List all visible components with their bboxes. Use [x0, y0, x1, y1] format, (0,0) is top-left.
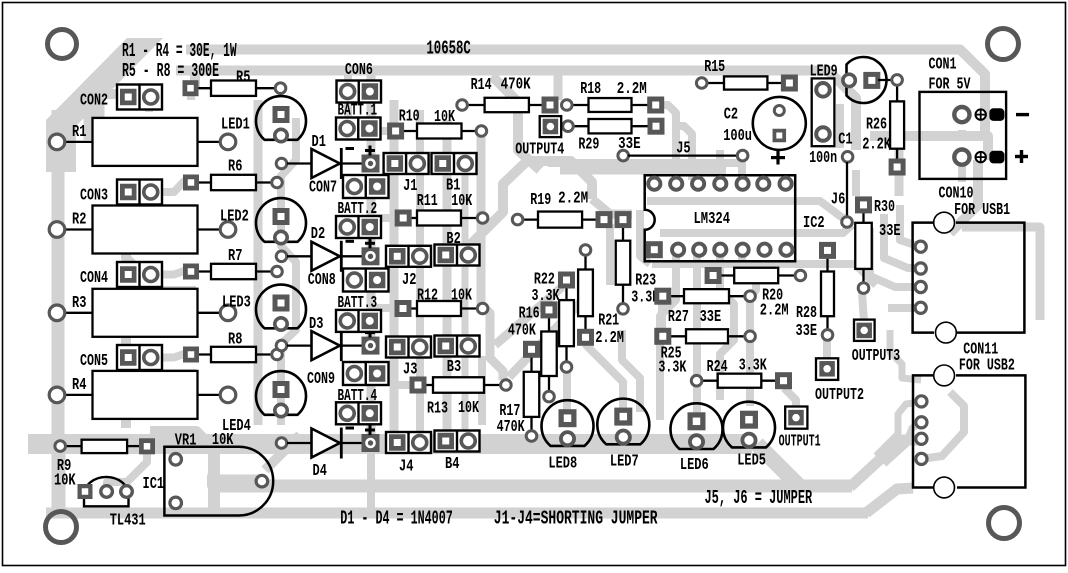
op-amp IC2 LM324 outline — [645, 175, 796, 261]
svg-text:OUTPUT3: OUTPUT3 — [852, 347, 900, 365]
svg-text:10K: 10K — [434, 108, 455, 126]
wire lm324 bus 3 — [652, 264, 876, 285]
connector CON9 — [343, 362, 389, 385]
wire c2 drop 1 — [716, 150, 724, 180]
wire out2 link — [823, 340, 831, 368]
connector BATT.1 — [336, 118, 381, 140]
LED LED9 holder — [812, 78, 835, 146]
wire con10 mid — [870, 136, 988, 160]
jumper J5 — [618, 150, 629, 161]
svg-text:C2: C2 — [724, 105, 738, 123]
wire r30 drop — [862, 292, 864, 322]
resistor R15 — [702, 82, 724, 84]
svg-text:B3: B3 — [447, 358, 461, 376]
svg-text:BATT.1: BATT.1 — [338, 102, 378, 120]
svg-text:FOR USB2: FOR USB2 — [959, 357, 1015, 375]
wire usb2 inner — [921, 392, 964, 459]
wire out1 link — [784, 388, 796, 412]
resistor R10 (10K) — [396, 130, 417, 132]
wire above IC run A — [548, 159, 742, 167]
wire left drop — [478, 356, 486, 425]
connector J4 — [386, 432, 431, 453]
svg-text:CON6: CON6 — [345, 61, 373, 79]
connector B4 — [435, 431, 480, 452]
svg-text:OUTPUT4: OUTPUT4 — [515, 141, 564, 159]
diode D2 (1N4007) — [276, 251, 287, 262]
LED LED3 — [256, 285, 306, 329]
svg-text:BATT.2: BATT.2 — [338, 200, 378, 218]
svg-text:BATT.4: BATT.4 — [338, 387, 378, 405]
svg-text:J5, J6 = JUMPER: J5, J6 = JUMPER — [705, 487, 813, 509]
wire lm324 inner bus 1 — [647, 201, 845, 219]
wire power diagonal top-left — [46, 38, 163, 172]
connector CON1 terminal block — [920, 92, 1007, 179]
resistor R23 (3.3K) — [622, 220, 624, 241]
svg-text:IC1: IC1 — [143, 475, 165, 493]
svg-text:TL431: TL431 — [110, 512, 146, 530]
polarity plus label row 2 — [365, 242, 375, 245]
svg-text:R29: R29 — [578, 136, 599, 154]
wire usb2 pad2 elbow — [884, 423, 921, 464]
svg-text:10K: 10K — [54, 472, 76, 490]
wire under R3 — [128, 369, 196, 381]
svg-text:D3: D3 — [309, 315, 323, 333]
resistor R19 (2.2M) — [518, 218, 538, 220]
connector CON10 USB1 — [913, 223, 1025, 333]
connector J2 — [386, 246, 431, 267]
polarity plus label row 4 — [365, 429, 375, 432]
wire busB to usb2 corner — [866, 488, 913, 513]
connector J3 — [386, 337, 431, 358]
svg-text:R30: R30 — [874, 198, 895, 216]
wire CON4 net — [121, 287, 131, 345]
connector B2 — [435, 245, 480, 266]
mounting hole bottom-right — [989, 508, 1020, 539]
capacitor C2 (100u) — [753, 97, 806, 150]
svg-text:D1: D1 — [312, 133, 327, 151]
resistor R27 (33E) — [663, 295, 684, 297]
LED LED7 — [597, 399, 649, 445]
svg-text:R13: R13 — [427, 400, 448, 418]
svg-text:R5: R5 — [236, 69, 250, 87]
connector OUTPUT3 — [854, 320, 875, 341]
wire batt rail c — [367, 190, 376, 256]
resistor R20 (2.2M) — [713, 274, 734, 276]
svg-text:470K: 470K — [508, 321, 536, 339]
resistor R1 (30E 1W) — [57, 141, 93, 143]
wire OUT4 branch — [492, 76, 540, 170]
connector BATT.2 — [336, 216, 381, 238]
wire c2 drop 2 — [738, 152, 746, 180]
wire usb1 nest 1 — [900, 205, 921, 247]
wire batt rail d — [367, 282, 376, 345]
wire LED9 to R26 — [878, 79, 897, 81]
svg-text:B2: B2 — [446, 230, 460, 248]
resistor R29 (33E) — [568, 125, 589, 127]
resistor R2 (30E 1W) — [57, 228, 93, 230]
svg-text:R26: R26 — [866, 116, 887, 134]
svg-text:IC2: IC2 — [803, 214, 825, 232]
svg-text:R18: R18 — [580, 80, 601, 98]
svg-text:CON4: CON4 — [80, 269, 108, 287]
svg-text:OUTPUT2: OUTPUT2 — [815, 386, 864, 404]
wire under R4 to VR1 — [150, 432, 214, 500]
resistor R13 (10K) — [418, 384, 433, 386]
capacitor C1 (100n) pad — [842, 152, 853, 163]
svg-text:R8: R8 — [228, 331, 242, 349]
wire B rail 3 — [462, 173, 469, 432]
jumper J6 — [846, 162, 848, 217]
svg-text:D1 - D4 = 1N4007: D1 - D4 = 1N4007 — [340, 508, 452, 530]
wire led ground band — [28, 434, 752, 454]
svg-text:R15: R15 — [704, 58, 725, 76]
svg-text:10K: 10K — [451, 287, 472, 305]
mounting hole top-right — [988, 29, 1019, 60]
wire CON5 net — [121, 372, 131, 428]
wire R5 pad drop — [190, 72, 200, 88]
wire CON3 net — [126, 205, 150, 282]
connector BATT.4 — [336, 402, 381, 424]
connector CON6 — [337, 81, 382, 103]
connector CON2 — [117, 85, 162, 110]
wire batt rail b — [344, 75, 352, 128]
svg-text:CON7: CON7 — [309, 178, 337, 196]
svg-text:R3: R3 — [72, 294, 86, 312]
svg-text:470K: 470K — [497, 418, 525, 436]
wire ic1 link — [107, 452, 147, 491]
svg-text:R23: R23 — [635, 271, 656, 289]
svg-text:R21: R21 — [598, 311, 619, 329]
svg-text:R22: R22 — [534, 271, 555, 289]
svg-text:J5: J5 — [676, 139, 690, 157]
wire con10 vert — [950, 160, 978, 233]
svg-text:C1: C1 — [838, 131, 853, 149]
resistor R5 (300E) — [191, 87, 212, 89]
svg-text:R1: R1 — [72, 123, 87, 141]
resistor R17 (470K) — [530, 349, 532, 372]
LED LED5 — [723, 402, 775, 448]
svg-text:33E: 33E — [796, 322, 818, 340]
svg-text:R16: R16 — [519, 305, 540, 323]
svg-text:LED7: LED7 — [610, 452, 639, 470]
polarity plus CON1 — [1015, 155, 1028, 158]
svg-text:CON9: CON9 — [307, 370, 335, 388]
svg-text:10K: 10K — [212, 431, 234, 449]
svg-text:3.3K: 3.3K — [658, 359, 686, 377]
svg-text:2.2K: 2.2K — [862, 136, 891, 154]
IC2 bottom pin row (pins 1-7) — [646, 241, 663, 258]
resistor R24 (3.3K) — [697, 380, 718, 382]
wire mid vertical 1 — [481, 136, 503, 380]
svg-text:D4: D4 — [313, 462, 328, 480]
wire R29 to pin12 — [678, 126, 692, 180]
resistor R28 (33E) — [826, 250, 828, 271]
svg-text:R6: R6 — [228, 158, 242, 176]
connector J1 — [384, 153, 429, 174]
wire d4 pad drop — [367, 452, 375, 510]
svg-text:FOR USB1: FOR USB1 — [954, 201, 1010, 219]
resistor R12 (10K) — [403, 307, 417, 309]
resistor R3 (30E 1W) — [57, 312, 93, 314]
svg-text:R12: R12 — [417, 287, 438, 305]
svg-text:J3: J3 — [403, 360, 417, 378]
svg-text:R14: R14 — [471, 76, 492, 94]
connector B3 — [435, 336, 480, 357]
svg-text:BATT.3: BATT.3 — [338, 294, 378, 312]
mounting hole bottom-left — [46, 512, 77, 543]
svg-text:R10: R10 — [399, 108, 420, 126]
svg-text:LED2: LED2 — [220, 207, 249, 225]
svg-text:2.2M: 2.2M — [617, 80, 647, 98]
svg-text:LED6: LED6 — [680, 456, 709, 474]
wire mid diag 1 — [495, 287, 562, 345]
svg-text:CON5: CON5 — [80, 352, 108, 370]
svg-text:10K: 10K — [458, 399, 479, 417]
wire usb1 nest 3 — [870, 228, 921, 287]
resistor R11 (10K) — [403, 217, 417, 219]
wire lm pad drop 3 — [720, 255, 734, 400]
wire led rail — [254, 100, 263, 425]
wire top bus 1 — [186, 50, 985, 135]
svg-text:3.3K: 3.3K — [739, 356, 767, 374]
LED LED9 — [847, 57, 887, 103]
svg-text:VR1: VR1 — [175, 432, 197, 450]
wire sweep 2 — [592, 199, 632, 214]
LED LED1 — [256, 96, 306, 140]
svg-text:10K: 10K — [451, 192, 472, 210]
svg-text:33E: 33E — [879, 222, 901, 240]
resistor R30 (33E) — [862, 205, 864, 223]
wire r27 r25 link — [658, 302, 666, 330]
wire usb1 nest 4 — [888, 304, 921, 312]
svg-text:LED8: LED8 — [548, 455, 577, 473]
wire batt rail a — [367, 75, 376, 163]
connector OUTPUT4 — [540, 116, 562, 137]
polarity minus label row 4 — [346, 427, 355, 430]
wire top bus 2 — [176, 71, 856, 151]
wire R13 link — [394, 381, 418, 389]
svg-text:FOR 5V: FOR 5V — [929, 76, 971, 94]
svg-text:D2: D2 — [311, 225, 325, 243]
connector OUTPUT1 — [785, 407, 807, 429]
svg-text:OUTPUT1: OUTPUT1 — [779, 432, 821, 450]
wire r26 under — [895, 100, 904, 196]
wire usb2 nest 1 — [890, 330, 921, 380]
wire led9 drop — [836, 104, 844, 148]
wire R5 drop — [187, 91, 195, 100]
wire R12 link — [371, 304, 403, 312]
svg-text:10658C: 10658C — [426, 38, 470, 60]
connector CON3 — [117, 180, 162, 205]
wire CON3 to R6 — [152, 181, 192, 192]
connector CON5 — [117, 345, 162, 370]
svg-text:100n: 100n — [809, 149, 837, 167]
wire diagonal CON2 branch — [94, 57, 126, 140]
wire r19 drop — [606, 224, 614, 285]
svg-text:J6: J6 — [831, 191, 845, 209]
wire con10 ring2 drop — [958, 165, 966, 182]
wire sweep under OUTPUT4 — [467, 161, 592, 248]
resistor R4 (30E 1W) — [57, 394, 93, 396]
wire r14 sq drop — [554, 72, 563, 100]
LED9 pads — [843, 74, 855, 86]
wire J rail — [390, 100, 399, 440]
wire under R2 — [128, 286, 196, 298]
svg-text:LED3: LED3 — [222, 294, 251, 312]
svg-text:CON8: CON8 — [308, 271, 336, 289]
diode D4 (1N4007) — [276, 438, 287, 449]
LED LED8 — [542, 400, 594, 446]
wire B rail — [416, 110, 424, 440]
svg-text:CON3: CON3 — [80, 187, 108, 205]
resistor R7 (300E) — [191, 270, 211, 272]
resistor R25 (3.3K) — [663, 335, 686, 337]
svg-text:J1: J1 — [403, 177, 418, 195]
wire r23 drop — [622, 330, 640, 412]
wire usb2 pad1 elbow — [876, 402, 921, 456]
polarity plus label row 3 — [365, 331, 375, 334]
resistor R14 (470K) — [462, 104, 485, 106]
polarity minus CON1 — [1016, 113, 1029, 116]
LED LED2 — [256, 198, 306, 242]
connector CON8 — [343, 269, 389, 292]
resistor R16 (470K) — [548, 310, 550, 332]
wire CON2 drop — [145, 91, 153, 112]
LED LED4 — [256, 371, 306, 415]
wire lm pad drop 4 — [742, 255, 756, 406]
connector OUTPUT2 — [816, 358, 838, 380]
wire top bus 3 — [100, 89, 162, 99]
svg-text:2.2M: 2.2M — [595, 329, 624, 347]
resistor R26 (2.2K) — [896, 80, 898, 102]
wire bottom bus 2 — [46, 508, 868, 519]
wire vr1 to led band — [265, 435, 300, 470]
resistor R6 (300E) — [191, 181, 211, 183]
wire lm pad drop 2 — [693, 255, 701, 420]
svg-text:J1-J4=SHORTING JUMPER: J1-J4=SHORTING JUMPER — [494, 508, 658, 530]
polarity minus label row 3 — [346, 329, 355, 332]
mounting hole top-left — [48, 30, 77, 59]
svg-text:LED9: LED9 — [810, 62, 838, 80]
svg-text:R11: R11 — [417, 192, 438, 210]
wire CON5 to R8 — [152, 354, 192, 358]
svg-text:J4: J4 — [399, 458, 414, 476]
polarity plus C2 — [771, 156, 785, 159]
wire busA to usb2 pad3 — [850, 440, 918, 487]
svg-text:B4: B4 — [445, 455, 460, 473]
wire con10 drop1 — [958, 130, 966, 136]
svg-text:33E: 33E — [700, 308, 722, 326]
transistor-outline IC1 TL431 — [84, 477, 129, 506]
wire R18 to pin13 — [660, 105, 676, 180]
svg-text:R5 - R8 = 300E: R5 - R8 = 300E — [122, 60, 219, 82]
svg-text:R4: R4 — [72, 376, 87, 394]
connector CON11 USB2 — [913, 375, 1025, 487]
wire CON4 to R7 — [152, 271, 192, 275]
resistor R8 (300E) — [191, 353, 211, 355]
wire bottom bus 1 — [214, 480, 852, 493]
svg-text:R7: R7 — [228, 247, 242, 265]
svg-text:100u: 100u — [723, 127, 752, 145]
wire lm pad drop 1 — [660, 255, 676, 420]
wire notch elbow — [640, 210, 650, 264]
svg-text:R1 - R4 = 30E, 1W: R1 - R4 = 30E, 1W — [122, 40, 237, 62]
wire mid diag 2 — [509, 300, 583, 377]
connector B1 — [432, 153, 477, 174]
svg-text:2.2M: 2.2M — [760, 302, 789, 320]
wire under R1 — [128, 204, 196, 216]
potentiometer VR1 (10K) — [164, 447, 273, 516]
diode D1 (1N4007) — [276, 158, 287, 169]
resistor R9 (10K) — [60, 445, 81, 447]
connector CON7 — [343, 175, 389, 198]
polarity minus label row 2 — [346, 240, 355, 243]
wire usb1 nest 2 — [884, 214, 921, 268]
wire tl431 drop — [57, 452, 66, 508]
diode D3 (1N4007) — [276, 340, 287, 351]
connector BATT.3 — [336, 310, 381, 332]
wire R10 link — [371, 127, 396, 135]
wire ic2 right drop — [852, 170, 860, 196]
wire led rail 2 — [281, 118, 296, 425]
wire lm324 inner bus 2 — [660, 225, 852, 233]
wire r21 to led7 — [585, 344, 623, 410]
svg-text:470K: 470K — [501, 75, 531, 93]
svg-text:CON10: CON10 — [939, 184, 974, 202]
connector CON4 — [117, 262, 162, 287]
resistor R18 (2.2M) — [567, 104, 589, 106]
svg-text:R2: R2 — [72, 211, 86, 229]
LED LED6 — [671, 403, 723, 449]
svg-text:LED1: LED1 — [221, 116, 250, 134]
svg-text:R28: R28 — [796, 304, 817, 322]
wire R11 link — [371, 214, 403, 222]
wire B rail 2 — [443, 120, 452, 440]
svg-text:2.2M: 2.2M — [558, 190, 588, 208]
svg-text:R27: R27 — [668, 308, 689, 326]
svg-text:CON2: CON2 — [80, 92, 108, 110]
resistor R21 (2.2M) — [584, 250, 586, 270]
wire usb1 inner — [962, 227, 1040, 320]
wire pin1 drop — [651, 166, 658, 179]
polarity minus label row 1 — [346, 147, 355, 150]
svg-text:R19: R19 — [530, 191, 551, 209]
polarity plus label row 1 — [365, 149, 375, 152]
svg-text:R24: R24 — [707, 358, 728, 376]
wire above IC run B — [560, 167, 726, 175]
svg-text:LM324: LM324 — [694, 210, 731, 228]
svg-text:LED5: LED5 — [737, 451, 766, 469]
svg-text:CON1: CON1 — [929, 56, 957, 74]
wire vr1 net — [207, 475, 262, 488]
wire led band taper — [757, 444, 800, 487]
wire batt rail e — [367, 375, 376, 443]
IC2 top pin row (pins 14-8) — [648, 178, 660, 190]
svg-text:J2: J2 — [402, 271, 416, 289]
resistor R22 (3.3K) — [565, 280, 567, 300]
wire vr1 drop — [208, 481, 220, 512]
wire left rail — [52, 110, 65, 512]
wire r22 drop — [563, 368, 571, 410]
